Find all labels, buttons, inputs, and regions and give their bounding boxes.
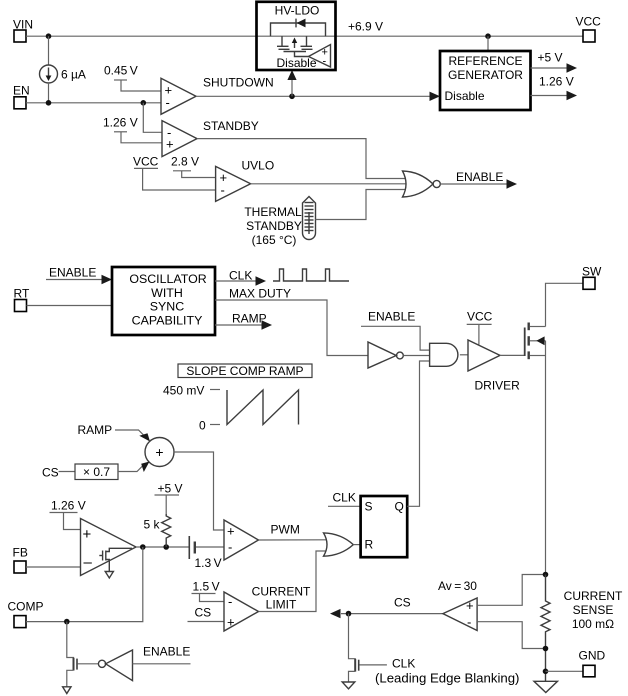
- node sense resistor top: [543, 572, 549, 578]
- svg-text:-: -: [228, 594, 232, 609]
- pass transistors inside HV-LDO: [277, 36, 313, 56]
- wire driver output to gate: [500, 354, 525, 356]
- svg-text:-: -: [323, 56, 327, 68]
- svg-text:CAPABILITY: CAPABILITY: [132, 313, 203, 327]
- svg-text:(Leading Edge Blanking): (Leading Edge Blanking): [375, 671, 519, 686]
- wire SHUTDOWN output to reference generator disable: [196, 95, 433, 97]
- clock waveform glyph: [273, 269, 349, 281]
- transistor Q1 (power MOSFET): [525, 323, 546, 575]
- svg-text:1.26 V: 1.26 V: [539, 75, 574, 89]
- svg-text:ENABLE: ENABLE: [456, 170, 503, 184]
- svg-text:REFERENCE: REFERENCE: [448, 54, 522, 68]
- buffer U-DRIVER: [468, 340, 520, 393]
- current source I1 6uA: [40, 36, 86, 103]
- svg-text:–: –: [84, 554, 93, 571]
- svg-text:UVLO: UVLO: [242, 159, 275, 173]
- svg-text:CS: CS: [394, 596, 411, 610]
- svg-text:Disable: Disable: [277, 56, 317, 70]
- ground (comp pulldown): [63, 687, 71, 694]
- op-amp inside HV-LDO: [277, 45, 331, 71]
- wire ENABLE into oscillator: [46, 266, 112, 285]
- svg-text:HV-LDO: HV-LDO: [275, 4, 320, 18]
- svg-text:+6.9 V: +6.9 V: [348, 20, 383, 34]
- wire CS output line with arrow: [330, 596, 443, 619]
- svg-text:450 mV: 450 mV: [163, 384, 204, 398]
- svg-text:VCC: VCC: [133, 155, 159, 169]
- svg-text:CLK: CLK: [333, 491, 356, 505]
- svg-text:6 µA: 6 µA: [61, 68, 86, 82]
- wire ENABLE into comp inverter: [133, 645, 191, 664]
- svg-text:OSCILLATOR: OSCILLATOR: [129, 272, 206, 286]
- wire AND output to driver: [460, 354, 468, 356]
- svg-text:CS: CS: [42, 466, 59, 480]
- svg-text:COMP: COMP: [8, 600, 44, 614]
- thermal standby sensor (165 C): [244, 197, 315, 248]
- wire EN line: [26, 102, 161, 104]
- wire summing output to PWM comparator: [174, 452, 224, 530]
- svg-text:ENABLE: ENABLE: [143, 645, 190, 659]
- wire CLK output arrow: [215, 269, 266, 286]
- comparator U-ILIM (current limit): [224, 585, 311, 632]
- svg-text:FB: FB: [13, 546, 28, 560]
- sawtooth waveform glyph: [227, 390, 299, 425]
- node GND junction: [543, 669, 549, 675]
- resistor R-5k: [144, 514, 171, 547]
- svg-text:SYNC: SYNC: [150, 300, 184, 314]
- supply tap 1.26 V (error amp): [50, 499, 86, 530]
- node error amp output / COMP junction: [140, 544, 146, 550]
- gate OR1 (reset logic): [324, 533, 354, 556]
- svg-text:2.8 V: 2.8 V: [171, 155, 199, 169]
- svg-text:ENABLE: ENABLE: [49, 266, 96, 280]
- svg-text:Disable: Disable: [445, 89, 485, 103]
- op-amp U-ERROR (error amplifier): [81, 519, 137, 576]
- comparator U-STANDBY: [162, 119, 259, 157]
- svg-text:DRIVER: DRIVER: [475, 379, 521, 393]
- svg-text:VCC: VCC: [467, 310, 493, 324]
- svg-text:+: +: [466, 598, 474, 613]
- node reference-generator feed junction: [485, 33, 491, 39]
- svg-text:1.26 V: 1.26 V: [51, 499, 86, 513]
- svg-text:+5 V: +5 V: [158, 482, 183, 496]
- gate AND1: [430, 343, 458, 366]
- svg-text:-: -: [467, 615, 471, 630]
- svg-text:SENSE: SENSE: [573, 603, 614, 617]
- pin VIN: [13, 18, 33, 43]
- svg-text:-: -: [228, 540, 232, 555]
- svg-text:PWM: PWM: [271, 523, 300, 537]
- svg-text:1.3 V: 1.3 V: [195, 556, 222, 570]
- node CS blanking junction: [346, 611, 352, 617]
- transistor Q-COMP (comp pulldown): [67, 622, 99, 687]
- svg-text:+5 V: +5 V: [538, 51, 563, 65]
- wire disable arrow up into HV-LDO: [291, 79, 293, 96]
- supply tap VCC (uvlo): [133, 155, 216, 191]
- node sense resistor bottom: [543, 646, 549, 652]
- ground (leading edge blanking): [342, 682, 355, 689]
- svg-text:-: -: [221, 183, 225, 198]
- wire MAX DUTY to inverter: [215, 287, 368, 356]
- wire FB to error amp: [26, 566, 81, 568]
- svg-text:SLOPE COMP RAMP: SLOPE COMP RAMP: [186, 364, 303, 378]
- svg-text:100 mΩ: 100 mΩ: [572, 617, 614, 631]
- node shutdown-disable junction: [289, 94, 295, 100]
- svg-text:CS: CS: [195, 606, 212, 620]
- supply tap VCC (driver): [467, 310, 493, 345]
- svg-text:ENABLE: ENABLE: [368, 310, 415, 324]
- multiplier block x0.7: [75, 464, 118, 480]
- supply tap 0.45 V: [104, 64, 161, 92]
- wire CS into multiplier: [42, 466, 75, 480]
- amplifier U-CS (Av = 30): [438, 579, 477, 631]
- svg-text:+: +: [227, 524, 235, 539]
- wire UVLO output to NOR: [251, 183, 406, 185]
- transistor Q-LEB (leading edge blanking): [349, 614, 387, 682]
- regulator block HV-LDO: [257, 2, 336, 70]
- svg-text:RAMP: RAMP: [232, 312, 267, 326]
- latch U-SR: [361, 496, 408, 557]
- label CLK leading edge blanking: [375, 657, 519, 686]
- comparator U-SHUTDOWN: [161, 76, 274, 115]
- svg-text:STANDBY: STANDBY: [203, 119, 259, 133]
- label 450 mV: [163, 384, 220, 398]
- block OSCILLATOR WITH SYNC CAPABILITY: [112, 267, 215, 335]
- svg-text:× 0.7: × 0.7: [83, 465, 110, 479]
- wire RAMP output arrow: [215, 312, 272, 330]
- svg-text:VCC: VCC: [576, 15, 602, 29]
- label 0: [199, 419, 220, 433]
- svg-text:GENERATOR: GENERATOR: [448, 68, 523, 82]
- svg-text:RT: RT: [14, 287, 30, 301]
- wire CS amp minus input (below sense resistor): [477, 622, 545, 649]
- battery V-1.3 (pwm offset): [189, 536, 224, 570]
- supply tap 1.5 V (current limit): [192, 580, 225, 602]
- svg-text:THERMAL: THERMAL: [244, 205, 302, 219]
- wire RAMP into summing node: [78, 423, 151, 442]
- wire ENABLE output arrow: [440, 170, 517, 189]
- wire ENABLE to AND gate: [361, 310, 430, 351]
- svg-text:CURRENT: CURRENT: [564, 589, 623, 603]
- wire latch Q to AND gate: [407, 361, 429, 506]
- svg-text:LIMIT: LIMIT: [266, 598, 297, 612]
- block REFERENCE GENERATOR: [430, 51, 531, 110]
- wire drain to SW pin: [546, 283, 584, 326]
- svg-text:EN: EN: [13, 84, 30, 98]
- pin COMP: [8, 600, 44, 628]
- node EN junction to standby: [141, 100, 147, 106]
- node COMP pulldown junction: [64, 619, 70, 625]
- clamp transistor Q-CLAMP inside error amp: [99, 548, 132, 571]
- supply tap 2.8 V: [171, 155, 216, 178]
- pin VCC (top right): [576, 15, 602, 43]
- svg-text:STANDBY: STANDBY: [246, 219, 302, 233]
- wire CLK to latch S: [328, 491, 361, 507]
- resistor R-SENSE 100 mOhm: [541, 575, 623, 682]
- svg-text:5 k: 5 k: [144, 518, 161, 532]
- pin RT: [14, 287, 30, 312]
- inverter U-INV (max duty): [368, 342, 403, 368]
- diode D1 inside HV-LDO: [271, 19, 326, 37]
- node EN junction at current source: [46, 100, 52, 106]
- gate NOR1 (enable logic): [403, 171, 441, 197]
- wire VIN rail: [26, 35, 583, 37]
- svg-text:+: +: [155, 444, 163, 460]
- pin EN: [13, 84, 30, 109]
- wire to GND pin: [546, 670, 584, 672]
- svg-text:CURRENT: CURRENT: [252, 585, 311, 599]
- supply tap 1.26 V (standby): [103, 116, 162, 143]
- wire inverter output to AND: [403, 355, 429, 357]
- wire thermal output to NOR: [316, 190, 406, 220]
- node VIN-current-source junction: [46, 33, 52, 39]
- node 5k resistor junction: [163, 544, 169, 550]
- svg-text:SHUTDOWN: SHUTDOWN: [203, 76, 274, 90]
- svg-text:S: S: [365, 500, 373, 514]
- svg-text:1.26 V: 1.26 V: [103, 116, 138, 130]
- wire EN to standby minus: [143, 103, 162, 133]
- svg-text:RAMP: RAMP: [78, 423, 113, 437]
- comparator U-UVLO: [216, 159, 275, 202]
- svg-text:MAX DUTY: MAX DUTY: [229, 287, 291, 301]
- wire STANDBY output to NOR: [197, 139, 405, 179]
- svg-text:(165 °C): (165 °C): [252, 233, 297, 247]
- wire multiplier to summing node: [118, 462, 150, 473]
- comparator U-PWM: [224, 520, 259, 560]
- wire PWM output to OR gate: [259, 523, 327, 541]
- svg-text:SW: SW: [582, 265, 602, 279]
- svg-text:GND: GND: [579, 649, 606, 663]
- pin GND: [579, 649, 606, 677]
- ground (error amp clamp): [105, 572, 113, 579]
- svg-text:Q: Q: [395, 500, 404, 514]
- wire 1.26 V output arrow: [531, 75, 578, 101]
- svg-text:+: +: [83, 526, 92, 543]
- supply tap +5 V (5k pullup): [155, 482, 183, 515]
- svg-text:WITH: WITH: [151, 286, 183, 300]
- svg-text:Av = 30: Av = 30: [438, 579, 477, 593]
- wire OR output to latch R: [353, 544, 360, 546]
- wire current limit output to OR gate: [259, 551, 327, 612]
- wire COMP to error amp output: [26, 547, 143, 622]
- summing node S1: [145, 438, 174, 467]
- svg-text:CLK: CLK: [392, 657, 415, 671]
- svg-text:1.5 V: 1.5 V: [193, 580, 220, 594]
- label box SLOPE COMP RAMP: [178, 364, 312, 378]
- svg-text:+: +: [166, 137, 174, 152]
- svg-text:0: 0: [199, 419, 206, 433]
- wire +5 V output arrow: [531, 51, 578, 73]
- svg-text:0.45 V: 0.45 V: [104, 64, 138, 78]
- pin SW: [582, 265, 602, 290]
- wire CS to current limit comparator: [188, 606, 225, 622]
- ground (power): [534, 681, 558, 692]
- pin FB: [13, 546, 28, 574]
- wire RT to oscillator: [27, 305, 113, 307]
- inverter U-INV2 (enable, comp): [98, 650, 132, 681]
- svg-text:+: +: [227, 615, 235, 630]
- wire error amp output: [136, 546, 189, 548]
- svg-text:R: R: [365, 538, 374, 552]
- svg-text:-: -: [166, 95, 170, 110]
- wire CS amp plus input (above sense resistor): [477, 575, 545, 606]
- wire rail to reference generator: [487, 36, 489, 51]
